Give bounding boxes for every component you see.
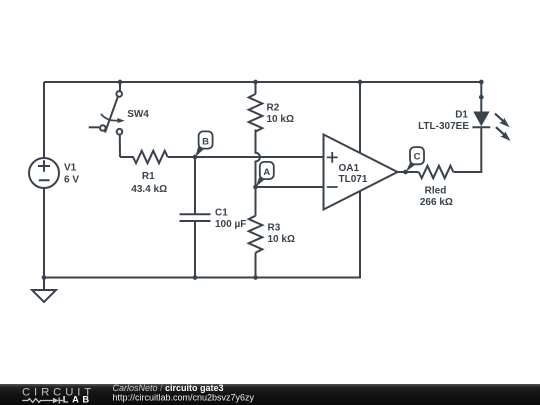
svg-text:http://circuitlab.com/cnu2bsvz: http://circuitlab.com/cnu2bsvz7y6zy	[113, 392, 255, 402]
svg-text:LAB: LAB	[63, 394, 93, 404]
